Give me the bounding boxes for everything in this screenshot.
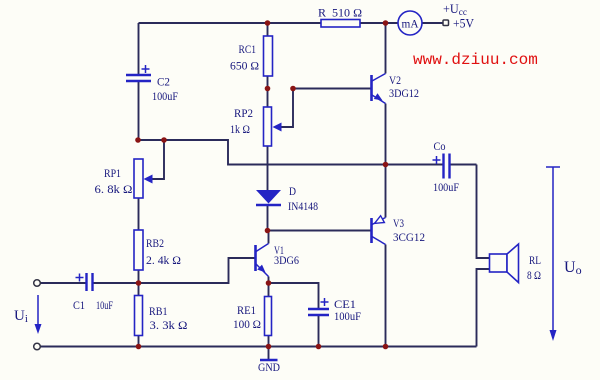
terminal +5V supply bbox=[443, 20, 449, 26]
wire meter to supply terminal bbox=[422, 22, 443, 24]
wire RP2 bottom to diode anode bbox=[267, 146, 269, 190]
svg-text:C2: C2 bbox=[157, 75, 170, 89]
svg-text:GND: GND bbox=[258, 362, 280, 374]
svg-text:100 Ω: 100 Ω bbox=[233, 317, 261, 331]
node V1 emitter junction bbox=[266, 280, 272, 286]
wire ground rail bbox=[41, 346, 477, 348]
ammeter mA bbox=[398, 11, 422, 35]
svg-text:3DG6: 3DG6 bbox=[274, 253, 299, 267]
node R right junction bbox=[383, 20, 389, 26]
svg-text:+5V: +5V bbox=[453, 17, 474, 31]
capacitor C1 bbox=[73, 273, 113, 312]
svg-text:mA: mA bbox=[402, 17, 419, 31]
capacitor Co bbox=[433, 139, 460, 194]
svg-text:6. 8k Ω: 6. 8k Ω bbox=[95, 182, 133, 196]
diode D IN4148 bbox=[256, 184, 318, 213]
svg-text:Co: Co bbox=[434, 139, 446, 153]
wire V1 collector bbox=[268, 231, 270, 244]
wire RP1 bottom to RB2 top bbox=[138, 198, 140, 230]
svg-text:D: D bbox=[289, 184, 296, 198]
wire RC1 bottom to base node bbox=[267, 76, 269, 107]
svg-text:Uo: Uo bbox=[564, 259, 582, 277]
wire diode cathode to V3 base node bbox=[267, 205, 269, 231]
wire CE1 to ground rail bbox=[318, 315, 320, 347]
wire input node to V1 base bbox=[139, 258, 255, 283]
svg-text:C1: C1 bbox=[73, 298, 85, 312]
svg-text:650 Ω: 650 Ω bbox=[230, 59, 259, 73]
svg-text:8 Ω: 8 Ω bbox=[527, 268, 541, 282]
svg-text:10uF: 10uF bbox=[96, 298, 113, 312]
wire C1 to input node bbox=[93, 282, 139, 284]
svg-text:RB1: RB1 bbox=[149, 304, 168, 318]
svg-text:R 510 Ω: R 510 Ω bbox=[318, 6, 362, 20]
svg-text:RP2: RP2 bbox=[234, 106, 253, 120]
svg-text:RL: RL bbox=[529, 253, 541, 267]
svg-text:1k Ω: 1k Ω bbox=[230, 122, 250, 136]
node RP1 wiper junction bbox=[161, 137, 167, 143]
wire top rail bbox=[139, 22, 399, 24]
node RC1 bottom junction bbox=[265, 86, 271, 92]
wire V2 emitter to output node bbox=[385, 104, 387, 165]
wire speaker column top bbox=[477, 165, 490, 259]
svg-text:100uF: 100uF bbox=[433, 180, 459, 194]
node ground RB1 junction bbox=[136, 344, 142, 350]
svg-text:3CG12: 3CG12 bbox=[393, 230, 425, 244]
node ground RE1 junction bbox=[266, 344, 272, 350]
wire speaker column bottom bbox=[477, 269, 490, 347]
svg-text:RB2: RB2 bbox=[146, 236, 164, 250]
svg-text:100uF: 100uF bbox=[152, 89, 178, 103]
svg-text:V3: V3 bbox=[393, 216, 404, 230]
svg-text:Ui: Ui bbox=[14, 308, 28, 325]
wire V1 emitter to node bbox=[268, 277, 270, 284]
node ground V3 junction bbox=[383, 344, 389, 350]
wire RE1 to ground rail bbox=[268, 336, 270, 347]
svg-text:RC1: RC1 bbox=[239, 42, 257, 56]
resistor R bbox=[318, 6, 362, 28]
transistor V2 3DG12 NPN bbox=[372, 73, 420, 104]
svg-text:V2: V2 bbox=[389, 73, 401, 87]
wire left column C2 top bbox=[138, 23, 140, 75]
wire emitter node to CE1 bbox=[269, 283, 319, 309]
svg-text:IN4148: IN4148 bbox=[288, 199, 318, 213]
resistor RC1 bbox=[230, 36, 273, 76]
svg-text:www.dziuu.com: www.dziuu.com bbox=[413, 51, 538, 69]
svg-text:RP1: RP1 bbox=[104, 166, 121, 180]
resistor RB1 bbox=[135, 296, 188, 336]
svg-text:RE1: RE1 bbox=[237, 303, 256, 317]
transistor V3 3CG12 PNP bbox=[372, 216, 426, 245]
wire V2 base bbox=[293, 88, 371, 90]
label Ui with arrow bbox=[14, 295, 42, 334]
wire output node to V3 emitter bbox=[385, 165, 387, 218]
node bootstrap junction left bbox=[135, 137, 141, 143]
node RP2 wiper junction bbox=[290, 86, 296, 92]
label Uo with arrow bbox=[546, 167, 582, 341]
wire input node through RB1 to ground rail bbox=[138, 283, 140, 347]
svg-text:3DG12: 3DG12 bbox=[389, 86, 419, 100]
wire V3 collector to ground rail bbox=[385, 245, 387, 347]
capacitor C2 bbox=[126, 65, 178, 103]
svg-text:3. 3k Ω: 3. 3k Ω bbox=[150, 318, 188, 332]
wire emitter node to RE1 bbox=[268, 283, 270, 297]
node ground CE1 junction bbox=[316, 344, 322, 350]
potentiometer RP2 bbox=[230, 89, 293, 147]
wire Co to speaker bbox=[450, 164, 477, 166]
resistor RB2 bbox=[134, 230, 181, 270]
resistor RE1 bbox=[233, 297, 272, 336]
svg-text:100uF: 100uF bbox=[334, 309, 361, 323]
terminal input top bbox=[34, 280, 41, 287]
wire RC1 top bbox=[267, 23, 269, 36]
node RC1 top junction bbox=[265, 20, 271, 26]
svg-text:2. 4k Ω: 2. 4k Ω bbox=[146, 253, 181, 267]
wire C2 bottom to bootstrap node bbox=[138, 81, 140, 140]
node V3 base junction bbox=[265, 228, 271, 234]
wire bootstrap node to output node and Co bbox=[139, 140, 444, 165]
capacitor CE1 bbox=[308, 297, 361, 323]
wire V2 collector to supply bbox=[385, 23, 387, 74]
transistor V1 3DG6 NPN bbox=[256, 243, 300, 277]
wire RB2 bottom to input node bbox=[138, 270, 140, 283]
speaker RL bbox=[490, 244, 542, 283]
node input junction bbox=[136, 280, 142, 286]
potentiometer RP1 bbox=[95, 140, 165, 198]
terminal input bottom bbox=[34, 343, 41, 350]
ground GND bbox=[258, 347, 280, 375]
node output junction bbox=[383, 162, 389, 168]
wire input terminal to C1 bbox=[41, 282, 87, 284]
wire V3 base bbox=[268, 230, 371, 232]
